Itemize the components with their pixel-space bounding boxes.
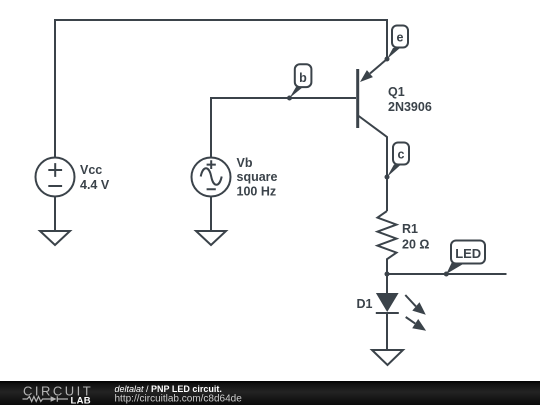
svg-text:LED: LED <box>455 246 481 261</box>
svg-text:LAB: LAB <box>71 396 91 405</box>
svg-text:100 Hz: 100 Hz <box>237 185 277 199</box>
svg-text:D1: D1 <box>357 297 373 311</box>
svg-text:square: square <box>237 170 278 184</box>
svg-text:20 Ω: 20 Ω <box>402 238 429 252</box>
svg-text:e: e <box>397 31 404 45</box>
svg-text:Vcc: Vcc <box>80 163 102 177</box>
svg-text:b: b <box>299 71 307 85</box>
svg-text:2N3906: 2N3906 <box>388 100 432 114</box>
svg-text:R1: R1 <box>402 222 418 236</box>
svg-text:4.4 V: 4.4 V <box>80 178 110 192</box>
svg-text:c: c <box>398 148 405 162</box>
svg-text:Vb: Vb <box>237 156 253 170</box>
svg-text:deltalat / PNP LED circuit.: deltalat / PNP LED circuit. <box>115 384 222 394</box>
svg-text:Q1: Q1 <box>388 85 405 99</box>
svg-text:http://circuitlab.com/c8d64de: http://circuitlab.com/c8d64de <box>115 394 243 405</box>
